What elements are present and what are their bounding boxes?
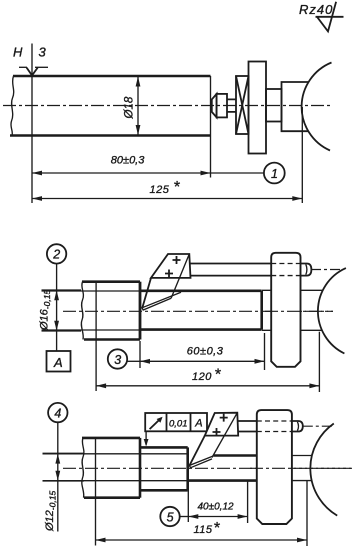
dimension 125* line <box>32 198 302 200</box>
125 left arrow <box>32 196 42 201</box>
dia16 shoulder face <box>186 447 189 490</box>
datum box A <box>47 351 71 372</box>
120 right arrow <box>309 383 319 388</box>
dia16 section top edge <box>140 446 188 449</box>
bar behind jaw top thin view3 <box>292 455 312 457</box>
svg-text:60±0,3: 60±0,3 <box>187 345 224 357</box>
tolerance leader <box>145 431 147 445</box>
dimension 60±0,3 line <box>140 360 265 362</box>
collar (remaining stock) top edge <box>82 280 140 283</box>
bar behind jaw bottom thin view3 <box>292 480 312 482</box>
dia16 section bottom edge <box>140 489 188 492</box>
extension line at part left end (120 dim) <box>95 282 97 391</box>
svg-text:Ø16-0,15: Ø16-0,15 <box>39 290 53 331</box>
turned end face <box>260 291 263 330</box>
chuck face plate <box>249 62 267 154</box>
svg-text:Ø12-0,15: Ø12-0,15 <box>44 491 58 532</box>
drive center cone <box>212 94 217 118</box>
dia12 extension bottom <box>43 480 85 482</box>
centerline view2 <box>63 310 333 312</box>
balloon 5 link <box>180 516 189 518</box>
block right face <box>139 438 142 498</box>
diameter 18 dimension line <box>137 77 139 136</box>
bar silhouette bottom thin <box>42 329 141 331</box>
tool 3 shank bottom <box>238 431 257 433</box>
pin cap inner arc view3 <box>297 422 298 431</box>
tool 2 body <box>151 254 191 278</box>
centerline view3 over jaw <box>250 467 352 469</box>
tool 2 plus mark lower <box>165 270 173 278</box>
pin axis dash view3 <box>303 425 332 427</box>
balloon 2 circle <box>47 244 66 263</box>
roughness symbol <box>316 2 344 32</box>
workpiece bottom edge <box>10 134 211 137</box>
svg-text:4: 4 <box>54 406 61 420</box>
tool 3 shank top <box>238 420 257 422</box>
80 dim right arrow <box>201 171 211 176</box>
block bottom edge <box>84 496 140 499</box>
tool 3 plus mark upper <box>220 414 228 422</box>
60 right arrow <box>255 359 265 364</box>
tool 3 internal diagonal <box>212 413 237 458</box>
workpiece top edge <box>13 75 211 78</box>
facing marker tick right <box>35 66 48 68</box>
dia18 arrow down <box>136 125 141 135</box>
dia12 arrow up <box>55 454 60 464</box>
svg-text:Н: Н <box>13 45 23 60</box>
collar right face <box>139 282 142 340</box>
pin hidden lines through jaw <box>271 264 300 276</box>
40 right arrow <box>238 514 248 519</box>
cross diagonal 1 <box>236 76 249 134</box>
tool 2 left edge to tip <box>142 278 151 308</box>
bar behind chuck top thin <box>262 289 323 291</box>
balloon 1 circle <box>264 163 285 184</box>
facing marker tick left <box>19 66 27 68</box>
tool 3 left edge to tip <box>189 436 205 466</box>
60 left arrow <box>140 359 150 364</box>
balloon 4 circle <box>48 403 67 422</box>
svg-text:120: 120 <box>192 371 212 383</box>
120 left arrow <box>96 383 106 388</box>
svg-text:1: 1 <box>271 167 278 181</box>
tool 3 body <box>205 413 238 436</box>
svg-text:Rz40: Rz40 <box>299 2 333 17</box>
balloon 3 circle <box>108 349 127 368</box>
balloon 5 circle <box>160 507 179 526</box>
leader / dia16 dimension vertical line <box>56 264 58 351</box>
chuck jaw view3 (white filled) <box>257 410 292 524</box>
svg-text:5: 5 <box>167 510 174 524</box>
dimension 120* line <box>96 385 319 387</box>
tool 3 plus mark lower <box>213 428 221 436</box>
tool 2 internal diagonal <box>171 254 189 298</box>
dia12 silhouette thin top (through block) <box>43 453 189 455</box>
dia16 extension line bottom <box>42 330 82 332</box>
tool 2 plus mark upper <box>173 256 181 264</box>
tool 3 tip wedge <box>189 456 214 468</box>
headstock arc view3 <box>310 424 337 516</box>
block (dia18 section) top edge <box>82 437 140 440</box>
turned dia16 surface top (thick) <box>140 289 262 292</box>
svg-text:*: * <box>214 366 221 383</box>
pin end cap <box>301 264 312 276</box>
svg-text:А: А <box>53 355 63 370</box>
dimension 80±0,3 line with leader to balloon 1 <box>32 172 264 174</box>
dia12 turned surface bottom (thick) <box>188 479 257 482</box>
workpiece right end face / extension line <box>210 76 212 178</box>
svg-text:Ø18: Ø18 <box>124 96 136 119</box>
workpiece break line (wavy left end) <box>11 76 14 136</box>
125 right arrow <box>292 196 302 201</box>
centerline view3 <box>63 467 352 469</box>
runout symbol arrow <box>150 418 161 429</box>
dia12 extension top <box>43 452 85 454</box>
115 left arrow <box>96 538 106 543</box>
40 dim extension right <box>247 480 249 523</box>
drive center stem <box>227 99 236 112</box>
pin end cap view3 <box>292 421 303 432</box>
dia16 arrow down <box>54 321 59 331</box>
drive center body <box>217 94 227 118</box>
chuck jaw view2 (white filled, hides bar) <box>271 253 300 367</box>
centerline view1 <box>3 105 332 107</box>
dimension 115* line <box>96 539 308 541</box>
headstock arc view2 <box>318 268 346 353</box>
dia16 arrow up <box>54 290 59 300</box>
40 left arrow <box>188 514 198 519</box>
dia12 turned surface top (thick) <box>214 454 257 457</box>
bar behind chuck bottom thin <box>262 329 322 331</box>
tool 2 shank top <box>191 263 272 265</box>
centerline view2 over jaw <box>265 310 333 312</box>
svg-text:2: 2 <box>52 248 60 262</box>
pin hidden lines through jaw view3 <box>257 421 292 432</box>
block wavy left break <box>82 438 84 498</box>
cross diagonal 2 <box>236 76 249 134</box>
tolerance frame divider 2 <box>190 413 192 431</box>
svg-text:0,01: 0,01 <box>169 419 188 430</box>
extension line at part left end (115 dim) <box>95 439 97 546</box>
tool 2 shank bottom <box>191 275 272 277</box>
svg-text:80±0,3: 80±0,3 <box>111 155 145 167</box>
svg-text:3: 3 <box>39 45 47 60</box>
bar silhouette top thin (through collar) <box>42 290 141 292</box>
tolerance frame divider 1 <box>166 413 168 431</box>
40 dim extension left <box>187 483 189 522</box>
svg-text:40±0,12: 40±0,12 <box>198 502 235 513</box>
60 dim extension left (collar edge extended) <box>139 341 141 368</box>
dia16 extension line top <box>42 289 82 291</box>
extension line right end view3 <box>306 481 308 547</box>
collar bottom edge <box>84 338 140 341</box>
svg-text:115: 115 <box>194 524 213 536</box>
balloon 3 link <box>127 360 139 362</box>
dia12 arrow down <box>55 471 60 481</box>
tolerance leader arrow <box>144 439 149 447</box>
pin end cap inner arc <box>306 264 307 275</box>
chuck jaw block with cross <box>236 76 249 134</box>
extension line right end of part <box>301 107 303 203</box>
pin axis dash <box>311 269 341 271</box>
dimension 40±0,12 line <box>188 516 247 518</box>
svg-text:*: * <box>213 520 220 537</box>
tool 2 tip wedge <box>142 292 181 310</box>
dia18 arrow up <box>136 77 141 87</box>
dia12 silhouette thin bottom <box>43 480 188 482</box>
115 right arrow <box>297 538 307 543</box>
headstock arc <box>302 63 332 151</box>
tolerance frame <box>145 413 207 431</box>
svg-text:125: 125 <box>150 184 170 196</box>
svg-text:А: А <box>194 418 202 430</box>
spindle stem <box>266 89 282 122</box>
collar wavy left break <box>81 282 83 340</box>
spindle block <box>282 82 309 131</box>
svg-text:3: 3 <box>114 353 121 367</box>
svg-text:*: * <box>173 179 180 196</box>
turned dia16 surface bottom (thick) <box>140 328 262 331</box>
facing marker arrowhead (open V) <box>27 68 38 76</box>
80 dim left arrow <box>32 171 42 176</box>
facing cut marker line (extension at x=32) <box>31 44 33 204</box>
leader / dia12 dimension vertical line <box>57 422 59 531</box>
60 dim extension right <box>264 333 266 370</box>
extension line right end view2 <box>318 332 320 392</box>
